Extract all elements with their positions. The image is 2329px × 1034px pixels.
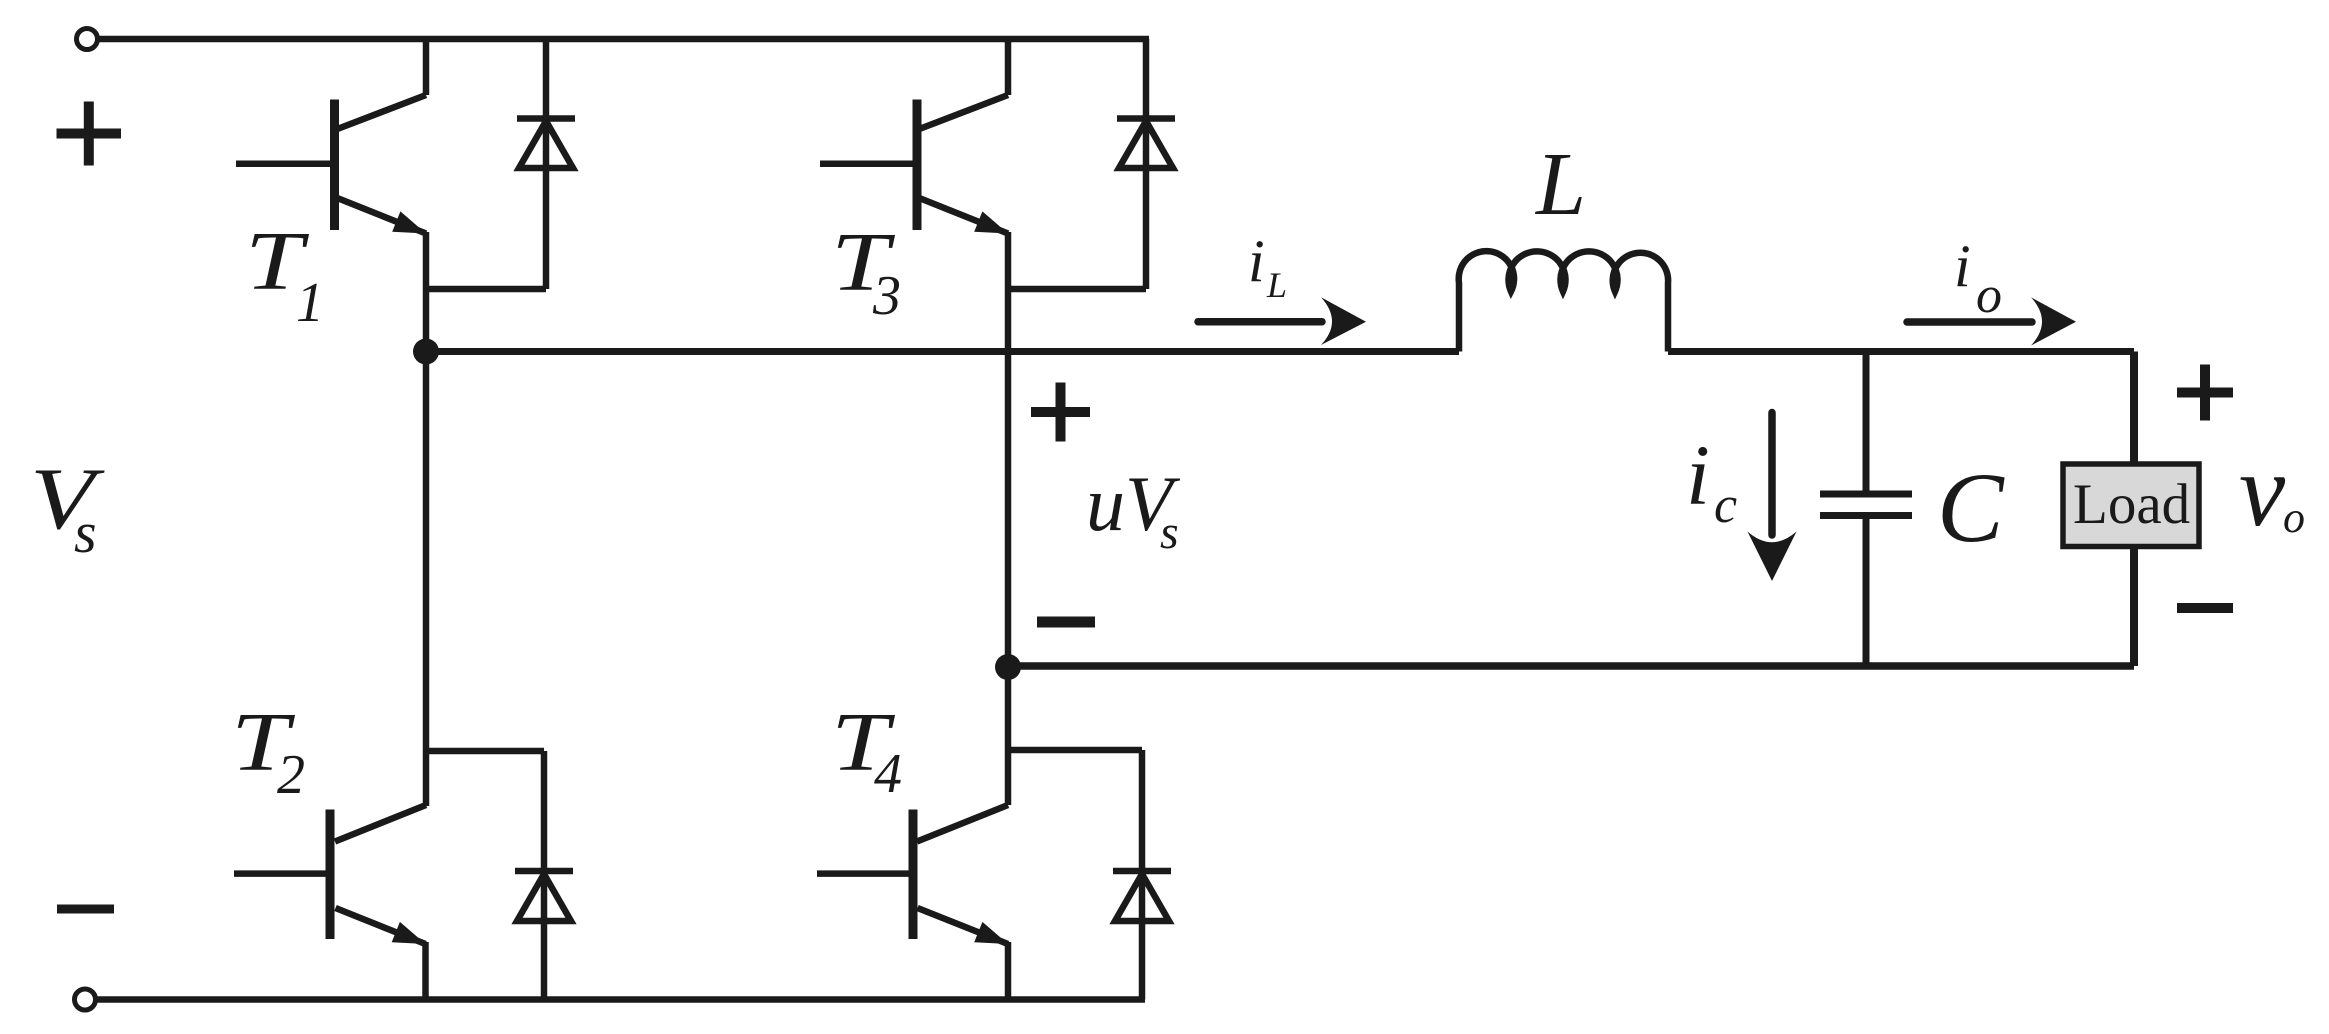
svg-text:s: s: [1160, 506, 1179, 559]
svg-text:c: c: [1714, 477, 1737, 534]
svg-text:Load: Load: [2073, 473, 2190, 536]
svg-text:i: i: [1686, 427, 1710, 523]
svg-text:s: s: [74, 500, 97, 565]
svg-text:2: 2: [277, 744, 305, 806]
svg-text:o: o: [1976, 267, 2002, 324]
svg-text:v: v: [2239, 433, 2286, 548]
svg-text:i: i: [1248, 228, 1265, 294]
svg-text:1: 1: [296, 272, 324, 334]
svg-text:C: C: [1937, 452, 2005, 563]
svg-text:L: L: [1266, 265, 1287, 305]
svg-text:o: o: [2283, 493, 2305, 542]
svg-text:i: i: [1954, 233, 1971, 299]
svg-text:3: 3: [872, 265, 901, 327]
svg-text:L: L: [1534, 135, 1586, 234]
svg-text:4: 4: [874, 743, 902, 805]
